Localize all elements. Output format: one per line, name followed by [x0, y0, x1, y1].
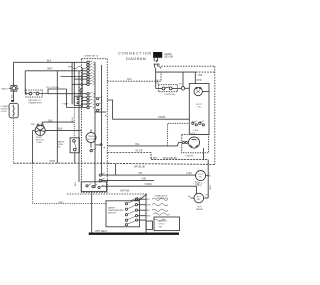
svg-text:V WHT: V WHT	[62, 104, 70, 106]
harness loops row top	[68, 66, 86, 69]
svg-text:WHT: WHT	[50, 160, 56, 163]
svg-text:BLU: BLU	[146, 210, 151, 212]
wire BLU dashed timer to bus	[107, 72, 161, 81]
part number text	[164, 52, 173, 59]
svg-text:BLK: BLK	[47, 59, 52, 62]
svg-text:1 WH: 1 WH	[193, 130, 199, 132]
svg-text:BLK: BLK	[49, 120, 54, 122]
wire valve common	[208, 160, 212, 198]
wire contact box to strap	[91, 191, 93, 232]
svg-text:SWITCH: SWITCH	[108, 212, 117, 214]
pump motor M1 left circle	[30, 124, 45, 144]
vertical harness wires	[57, 62, 82, 182]
svg-text:WHT NEUT: WHT NEUT	[95, 231, 108, 233]
cold water valve L1	[196, 171, 212, 188]
drive motor M2 dashed box	[182, 133, 209, 160]
selector label box	[154, 217, 180, 231]
svg-text:V BRN: V BRN	[145, 184, 152, 186]
svg-text:Y-BK: Y-BK	[141, 179, 147, 181]
hot water valve L2	[188, 193, 210, 211]
small corner box	[146, 221, 152, 230]
part number black box	[153, 52, 162, 58]
svg-text:163-2B: 163-2B	[164, 55, 173, 59]
svg-text:OR-BK: OR-BK	[158, 116, 166, 119]
svg-text:WHT: WHT	[59, 202, 65, 204]
svg-text:WATER: WATER	[196, 208, 204, 211]
wire BLK top left	[14, 59, 87, 62]
motor switch box U2	[189, 80, 209, 134]
wire motor to neutral	[33, 130, 36, 163]
water temperature switch S3	[106, 201, 140, 227]
svg-text:CORD: CORD	[1, 111, 8, 113]
svg-text:SW: SW	[159, 226, 162, 228]
thick neutral strap	[89, 231, 179, 235]
svg-text:C BU: C BU	[186, 173, 192, 175]
svg-text:KING WH-BK: KING WH-BK	[163, 158, 177, 160]
wire BLK hot bus top right	[156, 72, 215, 77]
svg-text:WH-BLUE: WH-BLUE	[134, 165, 145, 168]
wire WHT neutral main	[13, 160, 214, 164]
svg-text:ONE BK: ONE BK	[186, 156, 194, 158]
label unbalance switch	[155, 195, 169, 201]
wire dashed feeder to motor box	[168, 123, 190, 146]
wire J BLK motor right	[45, 128, 81, 130]
svg-text:TMB: TMB	[30, 124, 35, 126]
wire YEL timer to motor	[107, 143, 182, 147]
wire BLK from motor top	[42, 120, 74, 124]
svg-text:2 LPS: 2 LPS	[190, 133, 196, 135]
svg-text:ON: ON	[197, 107, 201, 109]
svg-text:TIMER: TIMER	[88, 136, 95, 138]
temp switch contacts	[125, 198, 145, 226]
power plug P1	[154, 58, 162, 72]
svg-text:YEL: YEL	[135, 144, 140, 146]
svg-text:CONNECTION: CONNECTION	[118, 51, 152, 55]
timer T1 dashed box	[81, 56, 107, 193]
wire labels YEL ORN BLU RED	[146, 199, 151, 218]
wire OR-BK timer to drive motor	[107, 100, 189, 119]
wire Y-BK	[99, 178, 154, 181]
wire YE-OR timer to motor	[107, 150, 208, 159]
wire neutral down left	[12, 118, 14, 163]
ground dashed boundary	[159, 66, 215, 164]
svg-text:FILL: FILL	[197, 199, 201, 201]
wire motor switch feed	[194, 72, 196, 83]
svg-text:RED: RED	[146, 216, 151, 218]
svg-text:TIMER SW 16: TIMER SW 16	[84, 56, 99, 58]
svg-text:MTR: MTR	[197, 80, 202, 82]
svg-text:TUMBLE: TUMBLE	[159, 221, 168, 223]
lid switch S4 dashed box	[156, 85, 182, 96]
wire BLK drop to lid switch	[156, 72, 160, 88]
svg-text:WTR: WTR	[197, 185, 202, 187]
svg-text:WHT: WHT	[210, 184, 212, 189]
wire WHT top left	[25, 68, 87, 71]
wire WHT-BK dashed bottom	[67, 191, 146, 233]
svg-text:ORN: ORN	[146, 205, 151, 207]
timer motor M3	[86, 130, 96, 148]
svg-text:DIAGRAM: DIAGRAM	[126, 57, 146, 61]
timer bottom contact box	[81, 182, 106, 192]
svg-text:OR: OR	[139, 173, 143, 175]
svg-text:FRAME WHT: FRAME WHT	[29, 101, 43, 104]
svg-text:1 SPD: 1 SPD	[36, 142, 42, 144]
svg-text:RADIO: RADIO	[2, 87, 9, 90]
svg-text:YE-OR: YE-OR	[135, 150, 143, 152]
svg-text:GY-TY: GY-TY	[196, 104, 203, 106]
svg-text:9J: 9J	[93, 84, 95, 86]
svg-text:J BK: J BK	[198, 75, 203, 77]
svg-text:SW: SW	[57, 146, 60, 148]
svg-text:BLU: BLU	[127, 79, 132, 81]
harness loops vertical	[79, 88, 82, 97]
svg-text:WHT: WHT	[47, 68, 53, 71]
connector block J1	[74, 96, 82, 105]
svg-text:BLU: BLU	[72, 117, 74, 122]
svg-text:FU: FU	[179, 83, 182, 85]
timer mid contacts	[90, 144, 105, 152]
fuse FU	[179, 72, 189, 90]
wire WHT drop to capacitor	[24, 71, 26, 94]
wire WHT dotted bottom left	[33, 163, 106, 204]
svg-text:DOOR SW: DOOR SW	[164, 94, 176, 96]
svg-text:WIRING SW: WIRING SW	[157, 198, 169, 200]
svg-text:MOTOR: MOTOR	[87, 139, 95, 141]
svg-text:FILL: FILL	[199, 177, 203, 179]
wire V BRN to hot valve	[102, 182, 200, 195]
svg-text:4 E 10: 4 E 10	[159, 224, 166, 226]
interference capacitor C1 dashed box	[25, 87, 66, 104]
svg-text:WHT-BK: WHT-BK	[120, 191, 129, 193]
power cord W1	[1, 100, 19, 118]
svg-text:BLU: BLU	[75, 181, 77, 186]
noise filter FL1	[2, 62, 19, 100]
water level switch S2	[57, 138, 79, 163]
wire diagonal crossing	[131, 194, 147, 201]
harness loops right of temp switch	[152, 198, 170, 221]
timer terminals left column	[48, 61, 106, 116]
wire OR to cold valve	[99, 164, 195, 176]
svg-text:4 WH: 4 WH	[151, 158, 157, 160]
title CONNECTION DIAGRAM	[118, 51, 152, 61]
